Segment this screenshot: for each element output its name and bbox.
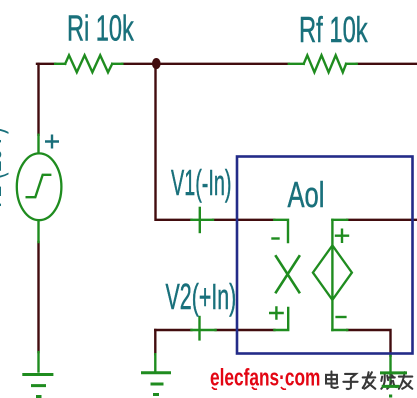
svg-text:V1(-In): V1(-In): [171, 164, 232, 204]
svg-text:elecfans·com: elecfans·com: [210, 365, 320, 391]
svg-text:Ri 10k: Ri 10k: [67, 9, 134, 49]
svg-text:V2(+In): V2(+In): [166, 277, 237, 317]
svg-text:V1 (15V): V1 (15V): [0, 127, 9, 212]
svg-text:Aol: Aol: [288, 175, 325, 215]
svg-text:Rf 10k: Rf 10k: [299, 10, 368, 50]
